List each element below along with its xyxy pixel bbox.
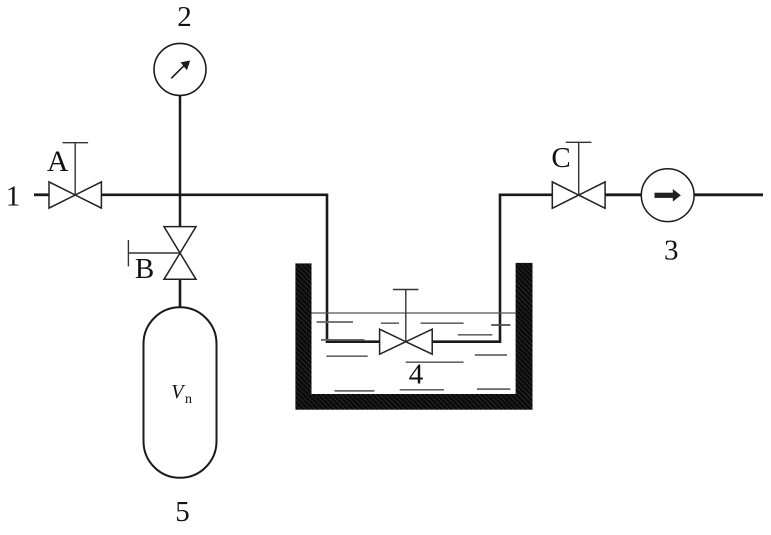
vessel Vn (5) xyxy=(144,307,217,478)
label B xyxy=(135,253,154,285)
tank 4 left wall xyxy=(295,263,311,394)
label 5 xyxy=(175,496,190,528)
water surface line xyxy=(312,312,516,314)
liquid dash xyxy=(477,388,510,390)
liquid dash xyxy=(326,355,367,357)
wire: pump 3 to right edge xyxy=(694,193,763,196)
liquid dash xyxy=(458,334,493,336)
svg-text:C: C xyxy=(551,142,570,174)
label 2 xyxy=(177,1,192,33)
wire: valve C to pump 3 xyxy=(605,193,641,196)
tank 4 right wall xyxy=(516,263,533,394)
wire: main inlet line left of valve A xyxy=(34,193,49,196)
liquid dash xyxy=(400,389,444,391)
liquid dash xyxy=(421,322,464,324)
liquid dash xyxy=(321,339,365,341)
svg-text:1: 1 xyxy=(6,181,21,213)
tank 4 bottom xyxy=(295,394,532,410)
svg-text:A: A xyxy=(47,145,69,178)
label A xyxy=(47,145,69,178)
liquid dash xyxy=(317,321,354,323)
pressure gauge 2 xyxy=(154,43,206,95)
svg-text:5: 5 xyxy=(175,496,190,528)
svg-text:2: 2 xyxy=(177,1,192,33)
label 3 xyxy=(664,234,679,266)
wire: valve B to vessel 5 xyxy=(179,279,182,308)
liquid dash xyxy=(381,322,399,324)
wire: main line from valve A to tank left downcomer, into tank to valve 4 xyxy=(101,195,379,342)
liquid dash xyxy=(491,324,510,326)
liquid dash xyxy=(335,390,375,392)
label 1 xyxy=(6,181,21,213)
svg-text:4: 4 xyxy=(409,359,424,391)
valve A xyxy=(49,143,101,208)
valve C xyxy=(552,142,605,208)
wire: from valve 4 up out of tank to valve C xyxy=(432,195,552,342)
valve B xyxy=(128,227,196,280)
liquid dash xyxy=(406,361,464,363)
pump 3 xyxy=(641,169,694,222)
svg-text:3: 3 xyxy=(664,234,679,266)
label 4 xyxy=(409,359,424,391)
liquid dash xyxy=(475,354,507,356)
wire: gauge down through main line to valve B xyxy=(179,95,182,227)
valve 4 (in tank) xyxy=(380,290,433,355)
svg-text:n: n xyxy=(185,392,192,407)
svg-text:B: B xyxy=(135,253,154,285)
label C xyxy=(551,142,570,174)
